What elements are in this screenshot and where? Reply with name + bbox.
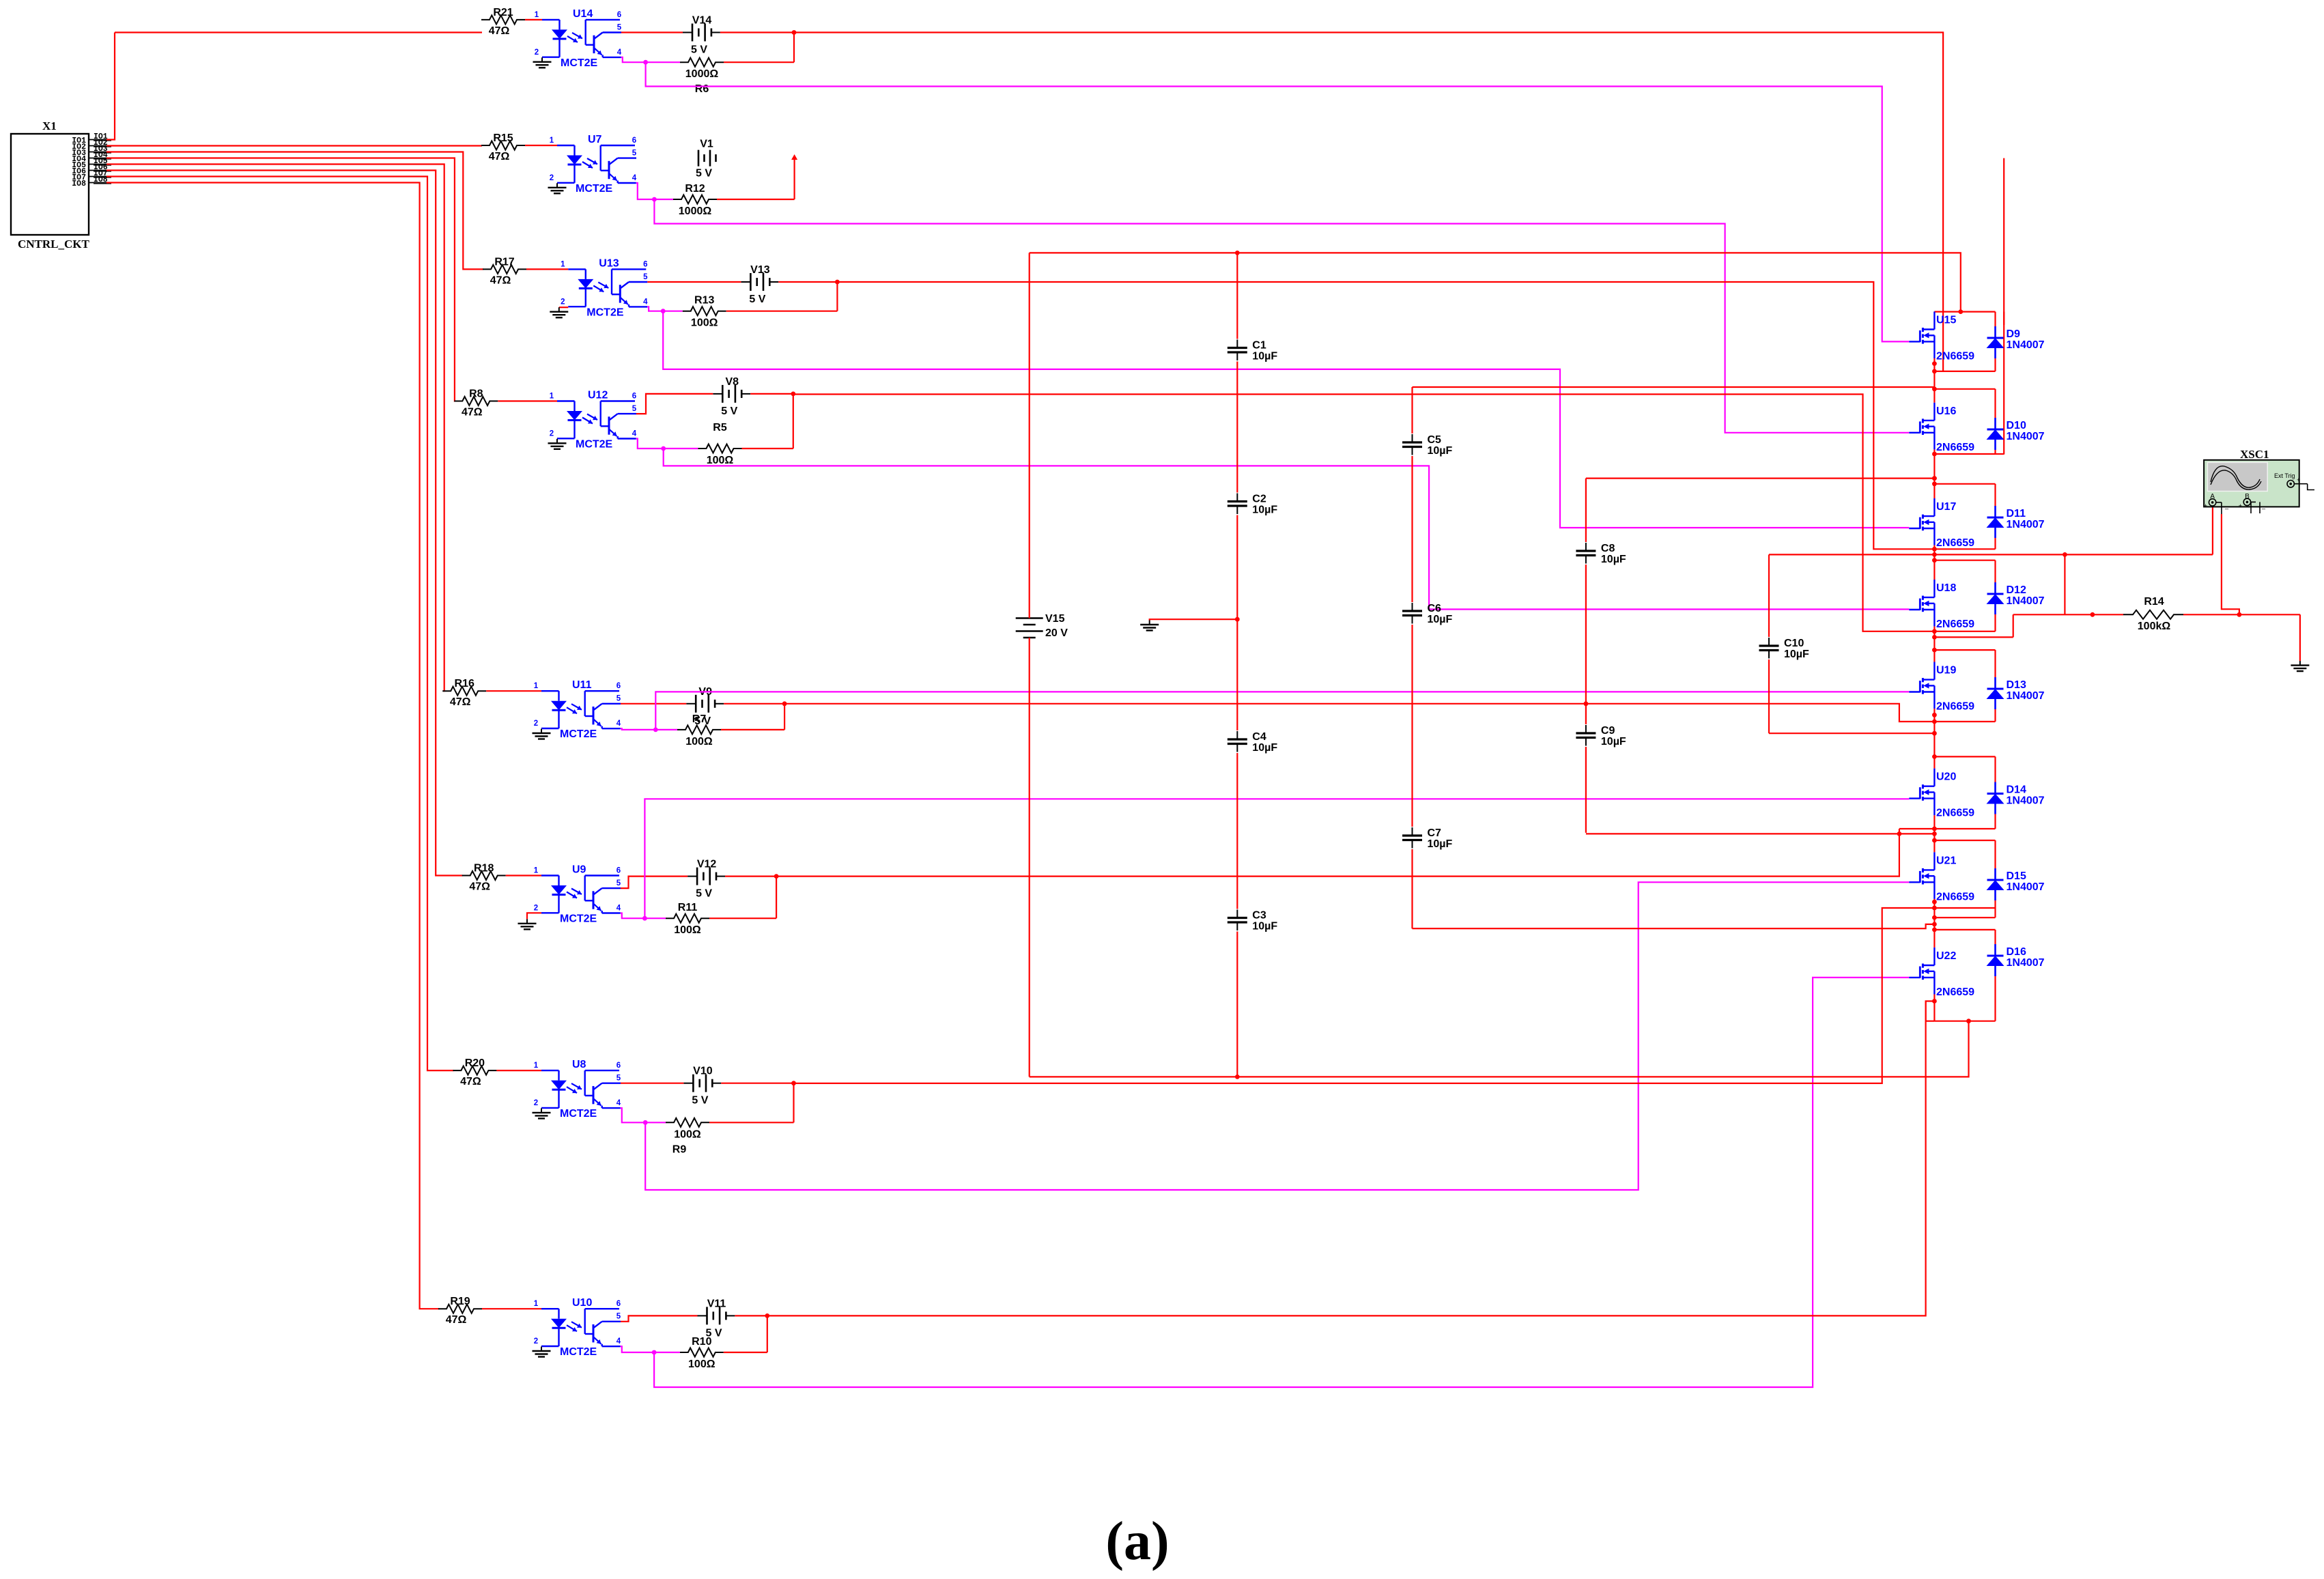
wire row6 (V12) rail to U20/U21 node riser: [776, 829, 1899, 877]
svg-text:U20: U20: [1936, 771, 1956, 783]
svg-text:1N4007: 1N4007: [2007, 431, 2045, 442]
svg-text:U19: U19: [1936, 665, 1956, 677]
svg-text:100Ω: 100Ω: [674, 1128, 701, 1140]
junction dot (magenta): [652, 197, 657, 202]
svg-text:4: 4: [632, 430, 637, 438]
X1 CNTRL_CKT control block: [11, 119, 90, 251]
svg-text:5 V: 5 V: [692, 1095, 708, 1107]
svg-text:U22: U22: [1936, 950, 1956, 962]
wire gate net row4 -> U18 gate (magenta): [664, 449, 1910, 610]
svg-text:(a): (a): [1105, 1511, 1169, 1571]
wire junction down to resistor: [767, 1315, 768, 1352]
transistor U18 2N6659 (MOSFET): [1909, 580, 1974, 630]
oscilloscope A+ rail from C10 top: [1769, 554, 2213, 555]
chain U18->U19: [1933, 631, 1935, 650]
wire pin5 to V10: [621, 1083, 683, 1084]
transistor U20 2N6659 (MOSFET): [1909, 769, 1974, 819]
svg-text:5: 5: [617, 23, 622, 31]
junction dot (magenta): [643, 1120, 648, 1125]
wire IO5 to row5 input: [107, 165, 444, 692]
wire row5 (V9) rail to U19 source: [784, 704, 1934, 722]
wire junction down to resistor: [793, 33, 795, 63]
svg-text:+: +: [2204, 502, 2207, 509]
svg-text:U13: U13: [599, 257, 619, 269]
diode D15 1N4007: [1987, 868, 2045, 900]
svg-text:10µF: 10µF: [1601, 736, 1626, 748]
junction dots U19/U20: [1932, 713, 1937, 717]
svg-text:U10: U10: [572, 1297, 592, 1309]
svg-text:2: 2: [534, 1099, 538, 1107]
svg-text:5 V: 5 V: [696, 168, 712, 180]
svg-text:R7: R7: [692, 713, 707, 725]
optocoupler U14 MCT2E: [535, 8, 622, 69]
svg-text:5: 5: [617, 695, 621, 703]
svg-text:D13: D13: [2007, 679, 2026, 691]
wire R9 to junction (red): [709, 1122, 794, 1123]
transistor U15 2N6659 (MOSFET): [1909, 311, 1974, 362]
svg-text:10µF: 10µF: [1428, 838, 1453, 850]
chain U17->U18: [1933, 549, 1935, 560]
ground (row 7): [541, 1108, 542, 1113]
transistor U16 2N6659 (MOSFET): [1909, 403, 1974, 453]
svg-text:1: 1: [534, 1062, 539, 1070]
svg-text:D14: D14: [2007, 784, 2026, 796]
svg-text:D9: D9: [2007, 328, 2021, 340]
wire junction down to resistor: [836, 282, 838, 311]
capacitor C1 10µF: [1226, 339, 1277, 362]
X1 pin IO2: [72, 139, 111, 152]
junction dot R14 right: [2237, 612, 2242, 617]
X1 pin IO7: [72, 169, 111, 182]
svg-text:2: 2: [534, 905, 538, 913]
svg-text:D11: D11: [2007, 508, 2026, 520]
ground (mid) wire to C1/C2 node: [1150, 619, 1238, 620]
wire scope A terminal down: [2212, 507, 2213, 554]
wire gate net row8 -> U22 gate (magenta): [654, 978, 1909, 1387]
wire C9 bottom rail to U20/U21 node: [1586, 833, 1935, 834]
bottom rail (V15-/C3 bottom) to U22 source: [1030, 1021, 1969, 1077]
U18 source aux line: [1934, 636, 2013, 638]
wire R19 to U10 pin1: [482, 1308, 541, 1309]
svg-text:C8: C8: [1601, 543, 1615, 554]
capacitor C6 10µF: [1402, 602, 1453, 625]
svg-text:CNTRL_CKT: CNTRL_CKT: [18, 238, 90, 251]
svg-text:1000Ω: 1000Ω: [679, 205, 712, 217]
wire R6 to junction (red): [724, 61, 794, 63]
svg-text:2N6659: 2N6659: [1936, 537, 1974, 549]
svg-text:6: 6: [617, 867, 621, 875]
svg-text:1: 1: [550, 137, 554, 145]
wire IO2 to R15 (row2): [107, 145, 482, 146]
svg-text:MCT2E: MCT2E: [576, 439, 613, 451]
wire V15+ up and top rail to U15 drain: [1029, 253, 1030, 618]
transistor U22 2N6659 (MOSFET): [1909, 948, 1974, 998]
svg-text:4: 4: [617, 1337, 621, 1346]
wire row3 (V13) rail to U17 source: [837, 282, 1934, 549]
junction dot: [791, 392, 795, 397]
wire U13 pin2 to ground: [559, 307, 569, 308]
svg-text:5 V: 5 V: [691, 44, 707, 56]
capacitor C9 10µF: [1575, 724, 1626, 748]
resistor R10: [680, 1336, 724, 1370]
junction dot: [791, 1081, 796, 1085]
svg-text:V15: V15: [1045, 613, 1065, 625]
wire R10 to junction (red): [724, 1352, 767, 1353]
svg-text:MCT2E: MCT2E: [586, 307, 624, 318]
resistor R18 47Ω: [462, 863, 506, 893]
svg-text:10µF: 10µF: [1252, 921, 1277, 933]
ground (row 8): [541, 1347, 542, 1352]
svg-text:R20: R20: [465, 1057, 485, 1069]
wire junction down to resistor: [793, 1083, 794, 1123]
junction dot at U15 drain: [1958, 309, 1963, 314]
battery V1 5V (unconnected): [696, 139, 716, 180]
svg-text:5: 5: [617, 1075, 621, 1083]
wire C5 top rail to U16 drain: [1413, 387, 1935, 389]
U22 box bottom junction dot: [1966, 1019, 1971, 1023]
wire U pin4 to R11 (magenta): [621, 913, 666, 919]
wire R21 to U14 pin1: [525, 19, 542, 20]
svg-text:U15: U15: [1936, 314, 1956, 326]
svg-text:100Ω: 100Ω: [707, 455, 734, 466]
wire A+ riser to R14 left rail: [2064, 554, 2065, 614]
wire V14 to junction: [720, 31, 794, 33]
resistor R15 47Ω: [481, 132, 525, 162]
wire U pin4 to R12 (magenta): [636, 183, 673, 199]
resistor R13: [683, 295, 726, 329]
chain U21->U22: [1933, 908, 1935, 930]
svg-text:2: 2: [534, 720, 538, 728]
transistor U19 2N6659 (MOSFET): [1909, 662, 1974, 713]
battery V10 5V: [683, 1066, 721, 1107]
svg-text:U8: U8: [572, 1059, 586, 1070]
wire gate net row3 -> U17 gate (magenta): [663, 311, 1909, 528]
wire pin5 to V11 (jog): [621, 1315, 698, 1321]
wire R13 to junction (red): [726, 311, 838, 312]
svg-text:47Ω: 47Ω: [489, 151, 510, 162]
svg-text:U7: U7: [588, 134, 602, 145]
diode D10 1N4007: [1987, 418, 2045, 450]
svg-text:XSC1: XSC1: [2240, 448, 2269, 461]
wire row1 (V14) rail to U15 source: [794, 33, 1943, 371]
svg-text:U9: U9: [572, 864, 586, 876]
svg-text:5: 5: [632, 150, 637, 158]
wire IO6 to row6 input: [107, 171, 463, 876]
junction dot at U20/U21 riser: [1897, 831, 1902, 836]
svg-text:100Ω: 100Ω: [674, 924, 701, 936]
wire U9 pin2 to ground: [527, 913, 541, 919]
svg-text:5 V: 5 V: [749, 294, 765, 305]
svg-text:C7: C7: [1428, 827, 1442, 839]
svg-text:5: 5: [617, 879, 621, 887]
capacitor C10 10µF: [1758, 554, 1809, 733]
junction dots U16/U17 node: [1932, 476, 1937, 481]
red cell box for U16: [1934, 389, 1995, 454]
wire C7 bottom rail to U21/U22 node: [1413, 924, 1935, 928]
svg-text:10µF: 10µF: [1784, 649, 1809, 660]
svg-text:U17: U17: [1936, 501, 1956, 513]
svg-text:6: 6: [632, 137, 636, 145]
svg-text:MCT2E: MCT2E: [560, 728, 597, 740]
wire U pin4 to R10 (magenta): [621, 1346, 680, 1352]
junction dot: [835, 280, 840, 285]
junction dots U20/U21: [1932, 827, 1937, 831]
capacitor C3 10µF: [1226, 909, 1277, 933]
X1 pin IO5: [72, 157, 111, 170]
svg-text:MCT2E: MCT2E: [576, 183, 613, 195]
red cell box for U17: [1934, 484, 1995, 550]
battery V8 5V: [713, 376, 750, 417]
outer diode bus vertical (V1 net top): [2003, 312, 2004, 325]
svg-text:10µF: 10µF: [1428, 445, 1453, 457]
svg-text:2N6659: 2N6659: [1936, 350, 1974, 362]
ground (row 1): [541, 57, 543, 62]
svg-text:47Ω: 47Ω: [450, 696, 471, 708]
svg-text:4: 4: [617, 48, 622, 57]
svg-text:5 V: 5 V: [696, 888, 712, 900]
svg-text:C9: C9: [1601, 725, 1615, 737]
svg-text:D15: D15: [2007, 870, 2026, 882]
diode D13 1N4007: [1987, 677, 2045, 709]
svg-text:D12: D12: [2007, 584, 2026, 596]
svg-text:U11: U11: [572, 679, 592, 691]
wire R7 to junction (red): [721, 729, 784, 730]
svg-text:IO8: IO8: [72, 180, 86, 188]
battery V11 5V: [698, 1298, 735, 1339]
wire V12 to junction: [725, 875, 776, 877]
svg-text:20 V: 20 V: [1045, 627, 1068, 639]
svg-text:10µF: 10µF: [1601, 554, 1626, 565]
wire U18 source aux riser to R14 rail: [2013, 614, 2014, 637]
svg-text:1: 1: [534, 1300, 539, 1308]
svg-text:2N6659: 2N6659: [1936, 891, 1974, 902]
svg-text:2N6659: 2N6659: [1936, 442, 1974, 453]
svg-text:10µF: 10µF: [1428, 614, 1453, 625]
svg-text:5: 5: [617, 1313, 621, 1321]
svg-text:6: 6: [632, 393, 636, 401]
svg-text:MCT2E: MCT2E: [560, 913, 597, 925]
junction dot (magenta): [661, 309, 666, 313]
svg-text:D10: D10: [2007, 420, 2026, 431]
ground (row 4): [556, 439, 558, 444]
resistor R14 100kΩ: [2123, 596, 2183, 632]
svg-text:V12: V12: [697, 859, 717, 870]
X1 pin IO6: [72, 163, 111, 176]
svg-text:6: 6: [617, 1062, 621, 1070]
svg-text:V8: V8: [726, 376, 739, 388]
wire V13 to junction: [778, 281, 837, 283]
wire gate net row7 -> U21 gate (magenta): [645, 882, 1909, 1190]
svg-text:C1: C1: [1252, 340, 1266, 352]
capacitor C5 10µF: [1402, 433, 1453, 457]
svg-text:1N4007: 1N4007: [2007, 881, 2045, 893]
junction dot (magenta): [642, 916, 647, 921]
wire U pin4 to R7 (magenta): [621, 728, 677, 730]
svg-text:1N4007: 1N4007: [2007, 595, 2045, 607]
svg-text:R19: R19: [450, 1296, 470, 1307]
wire IO4 to row4 input: [107, 158, 455, 401]
wire R12 to junction (red): [717, 199, 795, 200]
svg-text:1N4007: 1N4007: [2007, 795, 2045, 807]
diode D11 1N4007: [1987, 506, 2045, 538]
resistor R9: [666, 1118, 709, 1156]
X1 pin IO8: [72, 175, 111, 188]
svg-text:R11: R11: [678, 902, 698, 913]
optocoupler U13 MCT2E: [561, 257, 648, 318]
svg-text:MCT2E: MCT2E: [560, 1108, 597, 1120]
junction dot A+ riser: [2063, 552, 2067, 557]
svg-text:U21: U21: [1936, 855, 1956, 866]
junction dot at C2 top node: [1235, 617, 1240, 622]
wire V8 to junction: [750, 393, 793, 395]
diode D16 1N4007: [1987, 944, 2045, 976]
wire R20 to U8 pin1: [496, 1070, 541, 1071]
battery V13 5V: [741, 264, 778, 305]
red cell box for U15: [1934, 311, 1995, 371]
red cell box for U21: [1934, 840, 1995, 917]
svg-text:100Ω: 100Ω: [685, 736, 713, 748]
junction dot (magenta): [661, 446, 666, 451]
svg-text:47Ω: 47Ω: [490, 274, 511, 286]
svg-text:U18: U18: [1936, 582, 1956, 594]
svg-text:C6: C6: [1428, 603, 1442, 614]
svg-text:D16: D16: [2007, 946, 2026, 958]
svg-text:100Ω: 100Ω: [691, 317, 718, 329]
U16 box bottom right extension: [1996, 453, 2004, 455]
wire U20 box bottom left stub: [1899, 828, 1935, 829]
wire U pin4 to R5 (magenta): [636, 439, 698, 449]
svg-text:V11: V11: [707, 1298, 726, 1309]
U21 lower rung to diode bus: [1934, 917, 1995, 918]
svg-text:6: 6: [617, 1300, 621, 1308]
svg-text:U16: U16: [1936, 406, 1956, 417]
svg-text:6: 6: [617, 682, 621, 690]
svg-text:1N4007: 1N4007: [2007, 957, 2045, 969]
battery V14 5V: [683, 15, 720, 56]
capacitor C8 10µF: [1575, 542, 1626, 565]
svg-text:2N6659: 2N6659: [1936, 701, 1974, 713]
wire U12 pin5 to V8 (jog): [636, 394, 713, 414]
diode D14 1N4007: [1987, 782, 2045, 814]
resistor R19 47Ω: [438, 1296, 482, 1326]
capacitor C2 10µF: [1226, 493, 1277, 516]
junction dot U22 source: [1932, 999, 1937, 1004]
svg-text:+: +: [2297, 476, 2300, 483]
resistor R16 47Ω: [442, 678, 486, 708]
resistor R21 47Ω: [481, 7, 525, 37]
junction dot R14 rail: [2091, 612, 2095, 617]
svg-text:4: 4: [617, 1099, 621, 1107]
svg-text:+: +: [2239, 502, 2242, 509]
svg-text:1000Ω: 1000Ω: [685, 68, 719, 80]
wire IO3 to row3 input: [107, 152, 483, 270]
chain U19->U20: [1933, 722, 1935, 756]
wire V10 to junction: [721, 1083, 793, 1084]
X1 pin IO3: [72, 145, 111, 158]
wire V11 to junction: [735, 1315, 767, 1316]
wire row8 (V11) rail to U22 source: [767, 1001, 1935, 1316]
svg-text:10µF: 10µF: [1252, 351, 1277, 362]
svg-text:47Ω: 47Ω: [460, 1076, 481, 1087]
svg-text:R10: R10: [692, 1336, 711, 1348]
svg-text:1: 1: [534, 682, 539, 690]
svg-text:R14: R14: [2144, 596, 2164, 608]
junction dot at U21/U22 node: [1932, 922, 1937, 927]
wire gate net row2 -> U16 gate (magenta): [654, 199, 1909, 433]
resistor R8 47Ω: [454, 388, 498, 418]
svg-text:100kΩ: 100kΩ: [2138, 621, 2171, 632]
wire U pin5 to V13: [647, 281, 741, 283]
junction dot at C1 top: [1235, 251, 1240, 255]
ground (row 3): [558, 307, 560, 312]
svg-text:_: _: [2261, 502, 2266, 509]
chain U16->U17: [1933, 454, 1935, 484]
ground (row 6): [526, 919, 528, 924]
svg-text:4: 4: [643, 298, 648, 306]
svg-text:2N6659: 2N6659: [1936, 808, 1974, 819]
svg-text:6: 6: [643, 260, 647, 268]
svg-text:2N6659: 2N6659: [1936, 618, 1974, 630]
wire gate net row5 -> U19 gate (magenta): [655, 692, 1909, 730]
red cell box for U18: [1934, 560, 1995, 631]
X1 pin IO4: [72, 151, 111, 164]
resistor R5: [698, 422, 742, 466]
ground (right): [2299, 661, 2301, 666]
svg-text:1N4007: 1N4007: [2007, 519, 2045, 530]
junction dot: [792, 30, 797, 35]
svg-text:A: A: [2210, 493, 2215, 500]
svg-text:R8: R8: [469, 388, 483, 400]
svg-text:47Ω: 47Ω: [446, 1314, 467, 1326]
svg-text:IO8: IO8: [94, 175, 108, 184]
svg-text:V14: V14: [692, 15, 712, 27]
svg-text:2: 2: [561, 298, 565, 306]
wire U pin4 to R13 (magenta): [647, 307, 683, 311]
wire C10 bottom rail to U19/U20 node: [1769, 732, 1934, 734]
junction dots U16 source: [1932, 452, 1937, 457]
svg-text:2: 2: [550, 430, 554, 438]
svg-text:1N4007: 1N4007: [2007, 339, 2045, 351]
resistor R12: [673, 183, 717, 217]
svg-text:B: B: [2245, 493, 2250, 500]
wire gate net row6 -> U20 gate (magenta): [644, 799, 1909, 918]
svg-text:R9: R9: [672, 1143, 687, 1155]
wire U pin4 to R9 (magenta): [621, 1108, 666, 1122]
wire pin5 to V9: [621, 703, 686, 705]
battery V9 5V: [686, 686, 724, 727]
svg-text:MCT2E: MCT2E: [561, 57, 598, 69]
svg-text:C4: C4: [1252, 731, 1266, 743]
resistor R11: [666, 902, 709, 936]
wire IO8 to row8 input: [107, 183, 439, 1309]
svg-text:10µF: 10µF: [1252, 742, 1277, 754]
wire U pin4 to R6 (magenta): [621, 57, 680, 62]
resistor R6: [680, 58, 724, 96]
wire scope A- terminal to R14 right: [2222, 514, 2239, 614]
resistor R17 47Ω: [483, 256, 526, 286]
svg-text:2: 2: [534, 1337, 538, 1346]
svg-text:4: 4: [632, 174, 637, 182]
svg-text:4: 4: [617, 905, 621, 913]
resistor R20 47Ω: [453, 1057, 496, 1087]
junction dots U15 source: [1932, 361, 1937, 366]
ground (row 2): [556, 183, 558, 188]
wire U pin5 to V14: [621, 31, 683, 33]
optocoupler U12 MCT2E: [550, 390, 637, 451]
svg-text:R16: R16: [455, 678, 474, 689]
svg-text:2: 2: [550, 174, 554, 182]
wire R15 to U7 pin1: [525, 145, 557, 146]
